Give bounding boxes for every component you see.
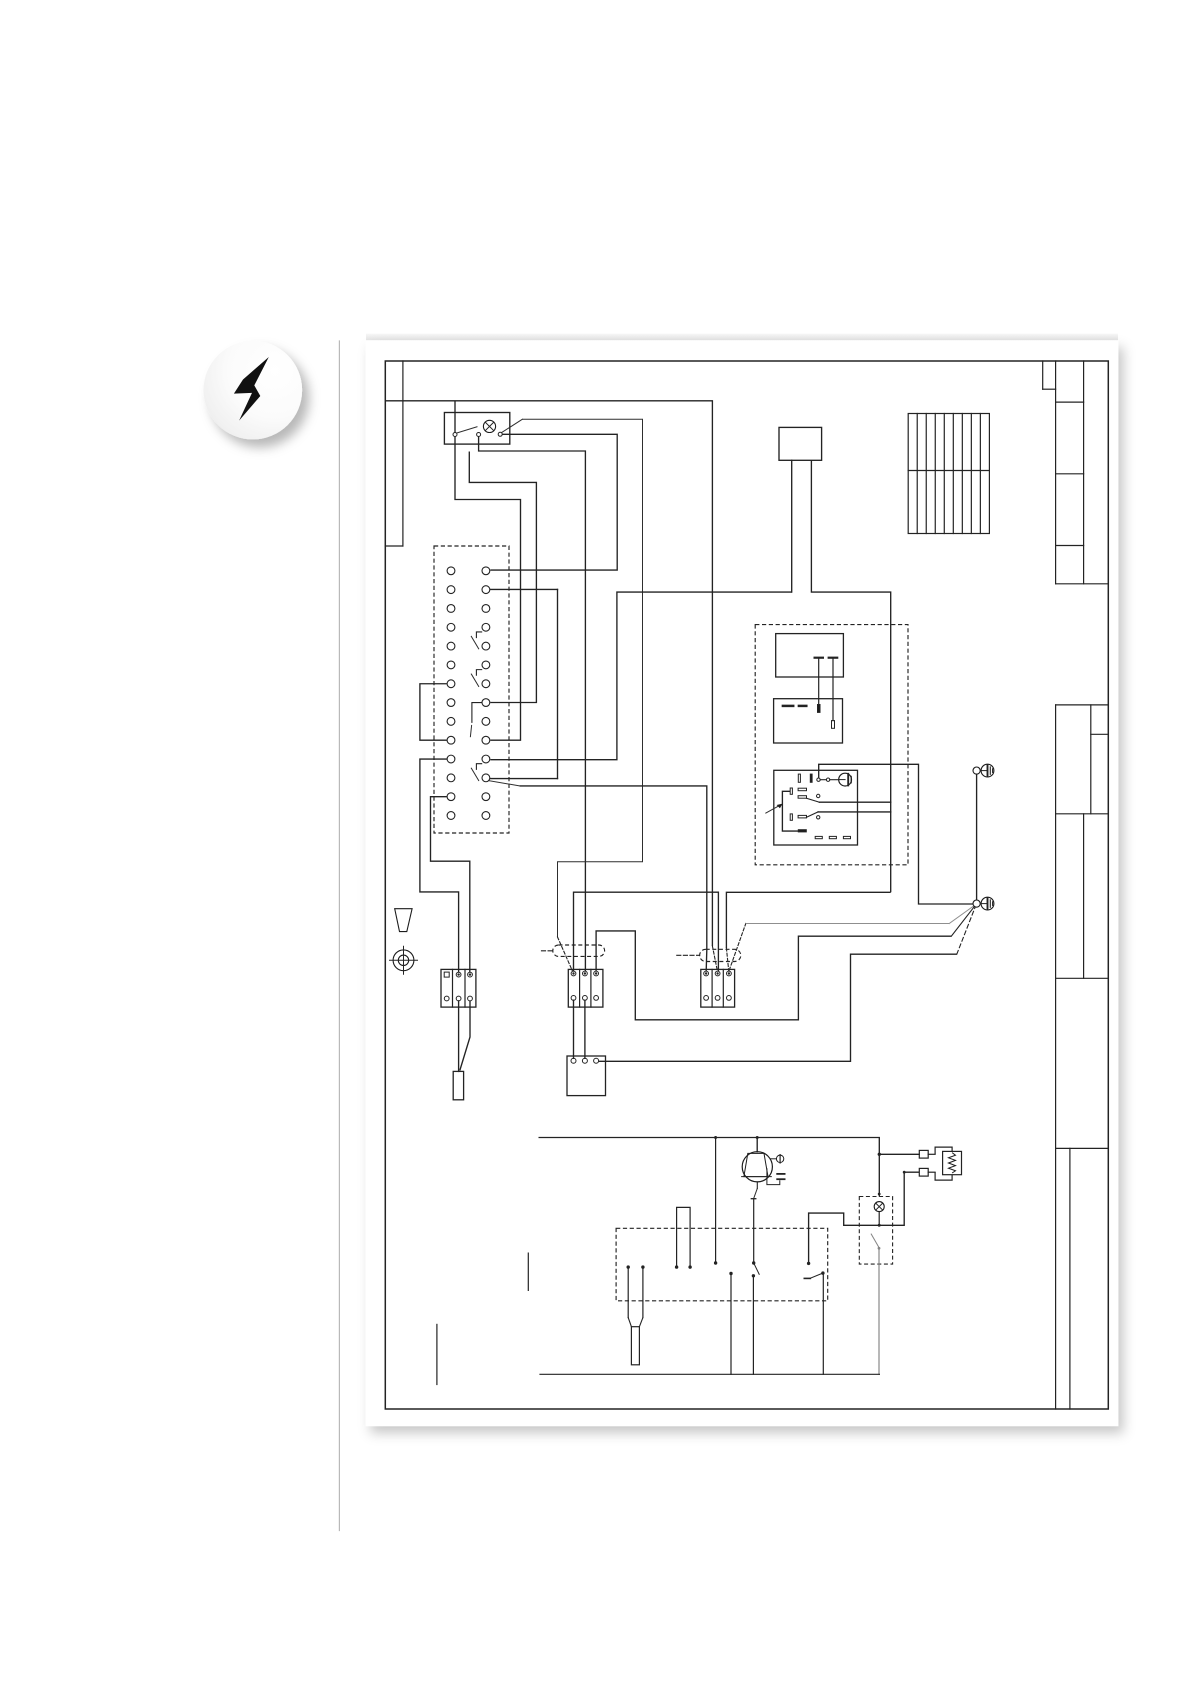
element pins bbox=[677, 1207, 691, 1267]
dashed feeder to T3.3 bbox=[726, 948, 728, 971]
motor feed contacts bbox=[817, 778, 820, 781]
thermostat block B bbox=[774, 699, 843, 743]
programmer connector (dashed) bbox=[434, 546, 509, 833]
oven lamp unit (dashed) bbox=[859, 1197, 892, 1265]
dashed feeder to T3.2 bbox=[712, 946, 717, 971]
wire: row2 / row12 link bbox=[490, 588, 557, 590]
wire: thin diagonal into terminal T2.1 bbox=[558, 937, 573, 972]
selector switch block bbox=[774, 770, 858, 845]
thermostat switch contact bbox=[754, 1263, 760, 1274]
probe pins bbox=[815, 657, 823, 659]
cooling fan FM bbox=[756, 1138, 758, 1152]
wire: left leg bbox=[791, 460, 793, 592]
funnel symbol bbox=[395, 909, 412, 932]
border frame bbox=[385, 361, 1108, 1409]
wire: T1.2 to thermal fuse bbox=[458, 1001, 460, 1072]
wire: bottom return rail bbox=[540, 1373, 879, 1375]
wire: lamp branch bbox=[807, 1262, 810, 1265]
vertical rule bbox=[338, 341, 340, 1531]
timer motor M bbox=[839, 773, 852, 786]
wire: bridge T2.1 to T3.2 bbox=[574, 892, 719, 971]
wire: T3.3 riser bbox=[726, 892, 890, 948]
earth link wire bbox=[976, 774, 978, 900]
switch blade in lamp box bbox=[457, 427, 477, 433]
thermal cutout bbox=[771, 1158, 777, 1160]
wire: oven feeder bbox=[714, 1136, 717, 1139]
grill resistor bbox=[943, 1151, 962, 1174]
sheet (drawing page with shadow) bbox=[366, 340, 1119, 1426]
earth stud upper bbox=[973, 767, 980, 774]
wire: T1.3 to thermal fuse bbox=[460, 1001, 470, 1071]
wire: lamp right thin branch bbox=[502, 419, 523, 432]
wire: row11 to terminal block T1.2 bbox=[420, 759, 459, 972]
contact circles bbox=[817, 794, 820, 797]
selector bracket bbox=[782, 791, 798, 831]
resistor housing bbox=[935, 1147, 952, 1154]
thermal fuse bbox=[453, 1071, 463, 1099]
title block strip bbox=[1043, 361, 1109, 1409]
lamp feed contact bbox=[804, 1277, 810, 1279]
margin column (top-left notch) bbox=[402, 361, 404, 546]
blade lower bbox=[807, 812, 819, 817]
control unit container (dashed) bbox=[755, 625, 908, 865]
selector left pins bbox=[790, 788, 792, 794]
grill heating element (hatched) bbox=[908, 414, 989, 534]
terminal block T1 bbox=[441, 969, 476, 1007]
wire: T2.2 to transformer bbox=[584, 1000, 586, 1058]
wire: T2.3 to earth stud bbox=[596, 931, 951, 1020]
connector lugs bbox=[919, 1150, 928, 1158]
selector bottom pins bbox=[815, 836, 822, 838]
wire: timer motor to earth bbox=[819, 764, 973, 904]
wire: T2.1 to transformer bbox=[573, 1000, 575, 1058]
connector pin circles bbox=[447, 567, 490, 820]
stub wire B bbox=[436, 1324, 438, 1384]
wire: lamp mid drop bbox=[479, 436, 586, 971]
shaft arrow bbox=[766, 806, 780, 814]
wire: transformer pin3 to earth stud bbox=[599, 954, 957, 1061]
wire: right leg bbox=[811, 460, 890, 892]
oven lamp symbol bbox=[874, 1202, 884, 1212]
sheet top scan shade bbox=[366, 334, 1118, 341]
fan plug bbox=[767, 1168, 780, 1184]
wire: lamp common drop bbox=[455, 401, 521, 740]
wire: lower bus bbox=[539, 1138, 880, 1197]
temperature probe bbox=[627, 1267, 629, 1318]
stub wire A bbox=[527, 1253, 529, 1290]
wire: connector loop rows 7-10 bbox=[420, 684, 447, 740]
cable capsule over T2 (dashed) bbox=[553, 945, 605, 956]
oven lamp box E1 bbox=[444, 413, 509, 445]
wire: to door switch bbox=[879, 1153, 919, 1155]
capacitor / suppressor block bbox=[779, 427, 822, 460]
terminal block T3 bbox=[701, 969, 735, 1007]
wire: fan feed to T3.1 bbox=[520, 786, 707, 971]
electricity chapter icon bbox=[204, 341, 303, 440]
lamp door switch bbox=[871, 1234, 879, 1248]
thermostat block A bbox=[776, 634, 844, 677]
wire: fan to oven switch bbox=[756, 1182, 758, 1189]
lamp box contact circles bbox=[453, 433, 457, 437]
wire: lamp mid to connector row8 bbox=[469, 452, 536, 703]
mains transformer block bbox=[567, 1056, 606, 1096]
wire: top supply bus bbox=[386, 401, 713, 946]
earth stud lower bbox=[973, 900, 980, 907]
contact hooks and blades bbox=[470, 632, 482, 781]
wire: neutral run to connector row11 bbox=[490, 592, 791, 760]
selector pins (top row) bbox=[798, 774, 800, 782]
oven thermostat container (dashed) bbox=[616, 1228, 828, 1301]
wire: lamp right to connector row1 bbox=[490, 434, 617, 570]
wire: row13 to terminal block T1.3 bbox=[431, 797, 470, 973]
wire: T3.3 earth link (dashed diagonal) bbox=[729, 924, 746, 971]
wire: contact outputs bbox=[819, 801, 890, 803]
cable capsule over T3 (dashed) bbox=[700, 949, 741, 961]
blade row12 to fan feed bbox=[489, 781, 520, 786]
terminal block T2 bbox=[568, 969, 603, 1007]
lamp symbol (circle-X) bbox=[483, 420, 495, 432]
neutral pin drop bbox=[729, 1272, 732, 1275]
blade upper bbox=[807, 798, 820, 802]
alignment target symbol bbox=[393, 950, 414, 971]
